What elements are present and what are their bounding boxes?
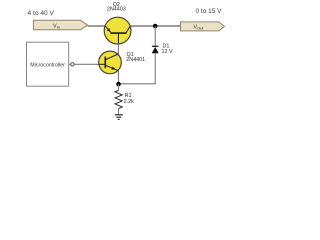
wire Q2 collector to output node — [130, 25, 181, 27]
svg-text:2N4403: 2N4403 — [107, 7, 126, 13]
wire microcontroller to Q1 base — [74, 63, 99, 65]
transistor Q1 (NPN 2N4401) — [99, 51, 122, 74]
svg-text:Microcontroller: Microcontroller — [30, 62, 65, 68]
wire D1 anode to junction — [118, 53, 155, 84]
transistor Q2 (PNP 2N4403) — [104, 17, 131, 44]
ground — [115, 115, 123, 120]
microcontroller box — [27, 42, 69, 86]
wire junction to R1 — [118, 84, 120, 90]
label 4 to 40 V — [27, 10, 54, 17]
wire D1 cathode lead — [154, 26, 156, 46]
label D1 12 V — [162, 44, 173, 56]
svg-text:4 to 40 V: 4 to 40 V — [27, 10, 54, 17]
node junction dot output rail / D1 — [153, 24, 158, 29]
svg-text:12 V: 12 V — [162, 49, 173, 55]
pin microcontroller output — [69, 63, 74, 66]
svg-text:2N4401: 2N4401 — [126, 57, 145, 63]
svg-text:0 to 15 V: 0 to 15 V — [195, 8, 222, 15]
wire Q1 emitter to junction — [117, 70, 119, 84]
node Vout output arrow — [181, 22, 225, 31]
svg-text:VOut: VOut — [193, 24, 204, 30]
label Q1 2N4401 — [126, 52, 145, 63]
label 0 to 15 V — [195, 8, 222, 15]
svg-text:2.2k: 2.2k — [124, 99, 134, 105]
node Vin input arrow — [33, 20, 87, 30]
wire Q2 base to Q1 collector — [117, 44, 119, 55]
diode D1 zener 12V — [152, 46, 159, 53]
node junction dot Q1 emitter / R1 / D1 — [116, 82, 121, 87]
svg-text:VIn: VIn — [53, 23, 60, 29]
resistor R1 — [115, 90, 122, 115]
label Q2 2N4403 — [107, 2, 126, 13]
wire Vin to Q2 emitter — [88, 25, 106, 27]
label R1 2.2k — [124, 93, 134, 105]
